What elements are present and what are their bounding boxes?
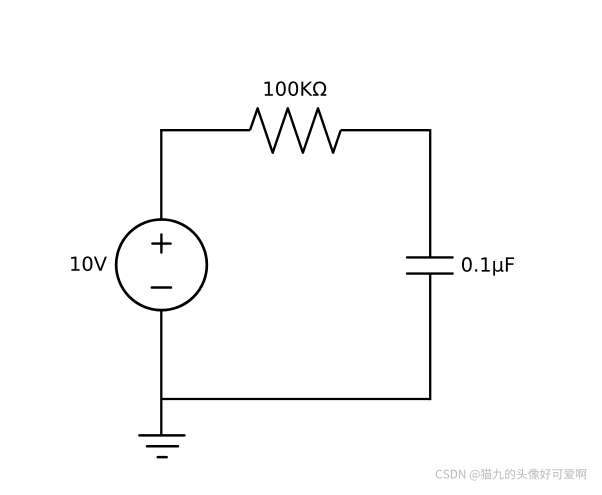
wire: top horizontal segment from resistor right lead to top-right corner bbox=[341, 129, 431, 131]
voltage source V1 plus sign horizontal stroke bbox=[152, 242, 170, 244]
watermark text CSDN @猫九的头像好可爱啊 bbox=[436, 468, 587, 480]
ground symbol middle bar bbox=[147, 445, 178, 448]
capacitor C1 top plate bbox=[407, 256, 453, 258]
voltage source V1 plus sign vertical stroke bbox=[160, 235, 162, 253]
wire: right vertical segment from capacitor bottom plate down to bottom-right corner bbox=[429, 274, 431, 401]
ground symbol top bar bbox=[139, 434, 184, 437]
wire: bottom horizontal segment from bottom-right corner to ground junction bbox=[161, 398, 430, 400]
wire: top horizontal segment from left corner to resistor left lead bbox=[160, 129, 250, 131]
wire: left vertical segment from voltage source bottom through bottom rail to ground bbox=[160, 309, 162, 435]
resistor R1 value label 100KΩ bbox=[264, 81, 326, 96]
capacitor C1 value label 0.1µF bbox=[462, 257, 514, 275]
resistor R1 zigzag body (100KΩ) bbox=[250, 108, 341, 152]
ground symbol bottom bar bbox=[158, 456, 167, 459]
wire: right vertical segment from top-right corner down to capacitor top plate bbox=[429, 129, 431, 257]
voltage source V1 minus sign stroke bbox=[152, 286, 171, 289]
voltage source V1 value label 10V bbox=[71, 256, 107, 271]
voltage source V1 circle outline bbox=[116, 219, 207, 310]
capacitor C1 bottom plate bbox=[407, 272, 453, 274]
wire: left vertical segment from top-left corner down to voltage source top bbox=[160, 129, 162, 221]
